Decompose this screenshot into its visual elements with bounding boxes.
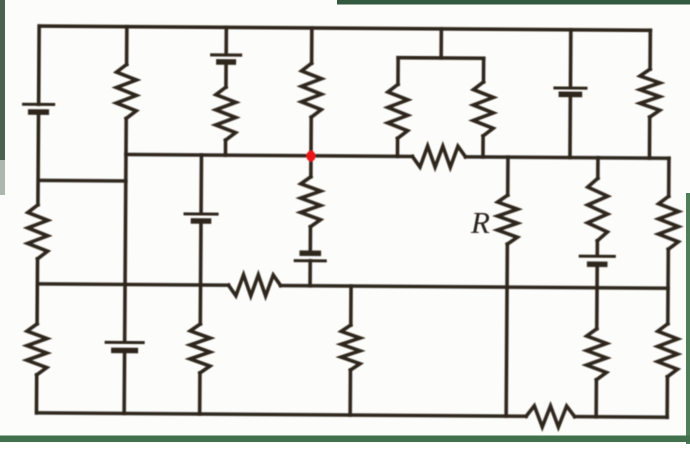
wire	[308, 227, 312, 253]
wire	[35, 259, 39, 324]
wire	[648, 30, 652, 69]
resistor R18	[526, 406, 575, 427]
wire	[224, 27, 228, 54]
resistor R14	[190, 324, 210, 373]
wire	[224, 62, 228, 87]
node (red junction dot)	[306, 151, 315, 162]
resistor R10	[587, 178, 607, 241]
wire	[349, 286, 353, 325]
resistor R17	[657, 324, 677, 377]
wire	[122, 350, 126, 413]
wire	[596, 158, 600, 178]
battery B4	[295, 253, 325, 261]
resistor R	[497, 195, 517, 244]
wire	[595, 241, 599, 256]
resistor R2	[216, 87, 236, 140]
resistor R13	[27, 324, 47, 375]
resistor R9	[300, 177, 320, 227]
wire	[125, 118, 127, 341]
wire	[37, 284, 228, 285]
wire	[35, 375, 39, 413]
wire	[126, 154, 412, 156]
resistor R12	[228, 275, 280, 296]
wire	[281, 286, 668, 289]
resistor R1	[116, 64, 136, 118]
wire	[568, 95, 572, 157]
resistor R3	[301, 63, 321, 117]
wire	[398, 56, 483, 60]
svg-text:R: R	[470, 205, 490, 240]
wire	[224, 140, 228, 155]
wire	[595, 264, 599, 328]
battery B6	[580, 256, 614, 264]
wire	[648, 117, 652, 158]
wire	[39, 26, 650, 30]
wire	[666, 249, 670, 323]
wire	[506, 157, 510, 195]
wire	[481, 136, 485, 157]
resistor R11	[658, 196, 678, 249]
wire	[506, 244, 507, 416]
wire	[396, 58, 400, 85]
wire	[198, 221, 202, 324]
resistor R5	[473, 82, 493, 136]
resistor R4	[388, 84, 408, 138]
label R	[470, 205, 490, 240]
resistor R16	[586, 329, 606, 380]
wire	[594, 380, 598, 417]
wire	[198, 373, 202, 414]
wire	[309, 117, 313, 176]
battery B1	[24, 104, 54, 112]
wire	[199, 155, 203, 213]
wire	[569, 30, 573, 88]
resistor R6	[640, 69, 660, 117]
resistor R7	[412, 146, 465, 167]
wire	[482, 58, 486, 82]
wire	[38, 179, 126, 183]
wire	[439, 29, 443, 58]
battery B7	[106, 342, 143, 350]
battery B5	[185, 214, 217, 221]
wire	[665, 377, 669, 417]
resistor R15	[341, 325, 360, 370]
wire	[36, 112, 40, 205]
wire	[37, 26, 41, 104]
wire	[575, 415, 667, 419]
wire	[667, 158, 671, 196]
wire	[36, 413, 526, 416]
wire	[308, 261, 312, 286]
wire	[310, 28, 314, 63]
wire	[125, 27, 129, 65]
battery B3	[555, 88, 586, 95]
resistor R8	[28, 205, 48, 259]
battery B2	[212, 55, 241, 62]
wire	[396, 138, 400, 156]
wire	[348, 370, 352, 415]
wire	[465, 157, 668, 158]
